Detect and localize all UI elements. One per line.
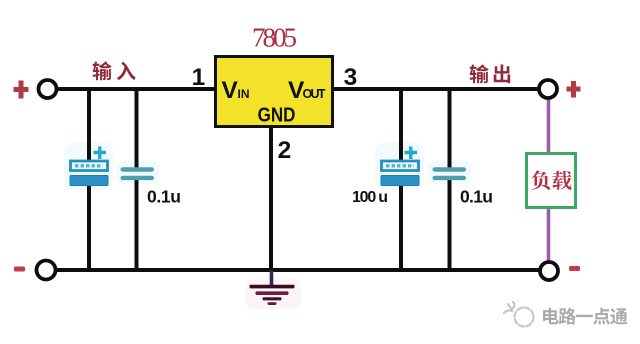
svg-text:2: 2 bbox=[278, 137, 292, 164]
svg-text:3: 3 bbox=[344, 64, 358, 91]
svg-text:OUT: OUT bbox=[303, 87, 326, 101]
svg-text:0.1u: 0.1u bbox=[147, 187, 181, 207]
svg-text:1: 1 bbox=[192, 64, 206, 91]
svg-text:GND: GND bbox=[258, 103, 296, 126]
svg-text:IN: IN bbox=[238, 87, 250, 101]
svg-text:V: V bbox=[222, 77, 239, 104]
svg-text:100 u: 100 u bbox=[352, 189, 388, 206]
svg-text:0.1u: 0.1u bbox=[460, 187, 493, 207]
svg-text:7805: 7805 bbox=[252, 23, 297, 53]
